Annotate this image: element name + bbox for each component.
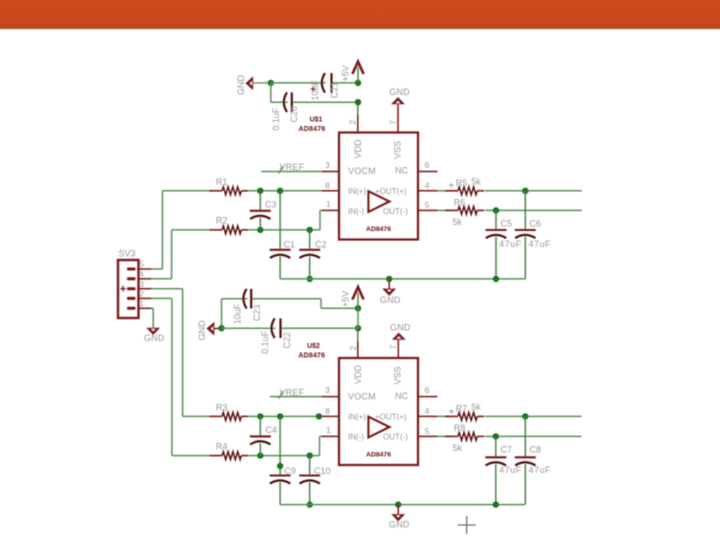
svg-text:VDD: VDD	[353, 365, 363, 385]
svg-text:5k: 5k	[471, 402, 481, 412]
svg-text:R5: R5	[456, 178, 468, 188]
svg-text:1: 1	[326, 425, 331, 435]
svg-text:IN(+): IN(+)	[348, 412, 366, 421]
svg-text:IN(-): IN(-)	[348, 433, 364, 442]
svg-text:C23: C23	[252, 305, 262, 322]
svg-text:7: 7	[388, 120, 398, 125]
svg-text:C9: C9	[284, 466, 296, 476]
svg-text:6: 6	[425, 385, 430, 395]
svg-text:R2: R2	[216, 216, 228, 226]
svg-text:7: 7	[388, 344, 398, 349]
svg-text:C3: C3	[265, 199, 277, 209]
svg-text:OUT(-): OUT(-)	[383, 433, 408, 442]
svg-text:R4: R4	[216, 442, 228, 452]
svg-text:C20: C20	[289, 106, 299, 123]
svg-text:10uF: 10uF	[233, 303, 243, 324]
svg-text:C2: C2	[315, 239, 327, 249]
svg-text:47uF: 47uF	[529, 465, 552, 475]
svg-text:47uF: 47uF	[499, 239, 522, 249]
svg-text:4: 4	[425, 406, 430, 416]
svg-text:VOCM: VOCM	[348, 166, 376, 176]
svg-text:2: 2	[348, 345, 358, 350]
svg-text:C6: C6	[530, 218, 542, 228]
svg-text:47uF: 47uF	[499, 465, 522, 475]
svg-text:8: 8	[325, 181, 330, 191]
svg-text:+OUT(+): +OUT(+)	[375, 412, 407, 421]
svg-text:VSS: VSS	[393, 366, 403, 384]
svg-text:IN(-): IN(-)	[348, 207, 364, 216]
svg-text:+5V: +5V	[341, 291, 351, 307]
svg-text:VREF: VREF	[280, 162, 305, 172]
svg-text:5k: 5k	[453, 443, 463, 453]
svg-text:VOCM: VOCM	[348, 392, 376, 402]
svg-text:8: 8	[325, 406, 330, 416]
svg-text:5: 5	[139, 259, 144, 269]
svg-text:4: 4	[139, 269, 144, 279]
svg-text:C10: C10	[314, 466, 331, 476]
svg-text:10uF: 10uF	[310, 80, 320, 101]
svg-text:47uF: 47uF	[529, 239, 552, 249]
svg-text:5: 5	[425, 426, 430, 436]
svg-text:OUT(-): OUT(-)	[383, 207, 408, 216]
svg-text:2: 2	[348, 120, 358, 125]
svg-text:6: 6	[425, 160, 430, 170]
svg-text:C22: C22	[282, 332, 292, 349]
svg-text:R7: R7	[456, 404, 468, 414]
svg-text:GND: GND	[389, 519, 410, 529]
svg-text:C7: C7	[500, 444, 512, 454]
svg-text:NC: NC	[395, 166, 408, 176]
svg-text:U$2: U$2	[307, 343, 320, 350]
svg-text:VDD: VDD	[353, 139, 363, 159]
svg-text:R3: R3	[216, 403, 228, 413]
svg-text:5k: 5k	[471, 176, 481, 186]
svg-text:GND: GND	[144, 333, 165, 343]
svg-text:AD8476: AD8476	[366, 226, 391, 233]
svg-text:GND: GND	[390, 323, 411, 333]
svg-text:1: 1	[326, 199, 331, 209]
svg-text:1: 1	[139, 299, 144, 309]
svg-text:0.1uF: 0.1uF	[271, 107, 281, 131]
svg-text:C4: C4	[265, 425, 277, 435]
svg-text:GND: GND	[389, 87, 410, 97]
svg-text:C8: C8	[530, 444, 542, 454]
svg-text:IN(+): IN(+)	[348, 187, 366, 196]
svg-text:C1: C1	[284, 239, 296, 249]
svg-text:GND: GND	[197, 320, 207, 341]
svg-text:U$1: U$1	[310, 117, 323, 124]
svg-text:GND: GND	[380, 295, 401, 305]
svg-text:SV3: SV3	[118, 249, 135, 259]
svg-text:2: 2	[139, 289, 144, 299]
svg-text:3: 3	[325, 160, 330, 170]
svg-text:0.1uF: 0.1uF	[260, 330, 270, 354]
svg-text:AD8476: AD8476	[299, 126, 326, 133]
svg-text:5: 5	[425, 200, 430, 210]
svg-text:AD8476: AD8476	[298, 353, 325, 360]
svg-text:VREF: VREF	[280, 387, 305, 397]
svg-text:R1: R1	[216, 177, 228, 187]
svg-text:4: 4	[425, 181, 430, 191]
svg-text:R8: R8	[454, 423, 466, 433]
svg-text:R6: R6	[454, 197, 466, 207]
svg-text:C5: C5	[501, 218, 513, 228]
svg-text:NC: NC	[395, 391, 408, 401]
svg-text:C21: C21	[329, 82, 339, 99]
svg-text:VSS: VSS	[393, 141, 403, 159]
svg-text:GND: GND	[236, 75, 246, 96]
svg-text:3: 3	[325, 385, 330, 395]
svg-text:+5V: +5V	[341, 65, 351, 81]
svg-text:AD8476: AD8476	[366, 452, 391, 459]
svg-text:5k: 5k	[453, 217, 463, 227]
svg-text:+OUT(+): +OUT(+)	[375, 187, 407, 196]
svg-text:3: 3	[139, 279, 144, 289]
